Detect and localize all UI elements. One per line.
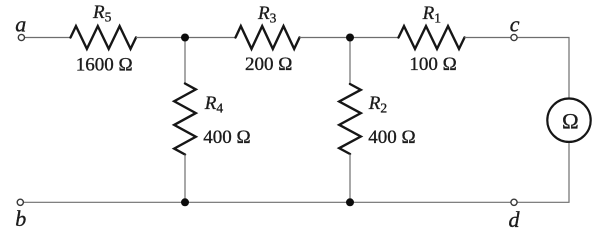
node c (open terminal): [511, 34, 517, 40]
junction node: top of R2: [346, 34, 354, 42]
svg-text:R3: R3: [257, 3, 277, 25]
svg-text:R4: R4: [204, 93, 224, 115]
wire: top node to resistor R4: [184, 38, 186, 84]
resistor R2: [339, 84, 361, 154]
wire: bottom rail from terminal b to terminal d: [23, 201, 511, 203]
node a (open terminal): [18, 34, 24, 40]
svg-text:R5: R5: [92, 2, 112, 24]
wire: terminal c to top-right corner, down to ohmmeter: [517, 38, 569, 99]
svg-text:400 Ω: 400 Ω: [368, 127, 415, 148]
wire: top node to resistor R2: [349, 38, 351, 85]
wire: ohmmeter bottom to bottom-right corner to terminal d: [517, 142, 569, 202]
wire: R4 to bottom node: [184, 155, 186, 203]
svg-text:R1: R1: [422, 3, 441, 25]
svg-text:100 Ω: 100 Ω: [409, 54, 456, 75]
svg-text:1600 Ω: 1600 Ω: [76, 55, 133, 76]
node b (open terminal): [17, 199, 23, 205]
wire: R5 to node at x=185: [136, 37, 236, 39]
wire: R1 to terminal c: [465, 37, 511, 39]
svg-text:c: c: [510, 12, 520, 37]
junction node: bottom of R4: [181, 198, 189, 206]
junction node: top of R4: [181, 34, 189, 42]
ohmmeter (circle with Omega): [547, 99, 590, 142]
svg-text:a: a: [15, 12, 26, 37]
svg-text:200 Ω: 200 Ω: [245, 54, 292, 75]
resistor R4: [174, 84, 196, 155]
junction node: bottom of R2: [346, 198, 354, 206]
svg-text:400 Ω: 400 Ω: [203, 127, 250, 148]
node d (open terminal): [511, 199, 517, 205]
resistor R5: [71, 26, 137, 49]
svg-text:R2: R2: [368, 93, 387, 115]
svg-text:b: b: [15, 206, 26, 231]
wire: terminal a to resistor R5: [25, 37, 71, 39]
resistor R1: [399, 26, 465, 49]
wire: R2 to bottom node: [349, 154, 351, 202]
resistor R3: [236, 26, 300, 49]
svg-text:Ω: Ω: [562, 108, 579, 133]
svg-text:d: d: [509, 207, 521, 232]
wire: R3 to node at x=350 and on to R1: [300, 37, 399, 39]
